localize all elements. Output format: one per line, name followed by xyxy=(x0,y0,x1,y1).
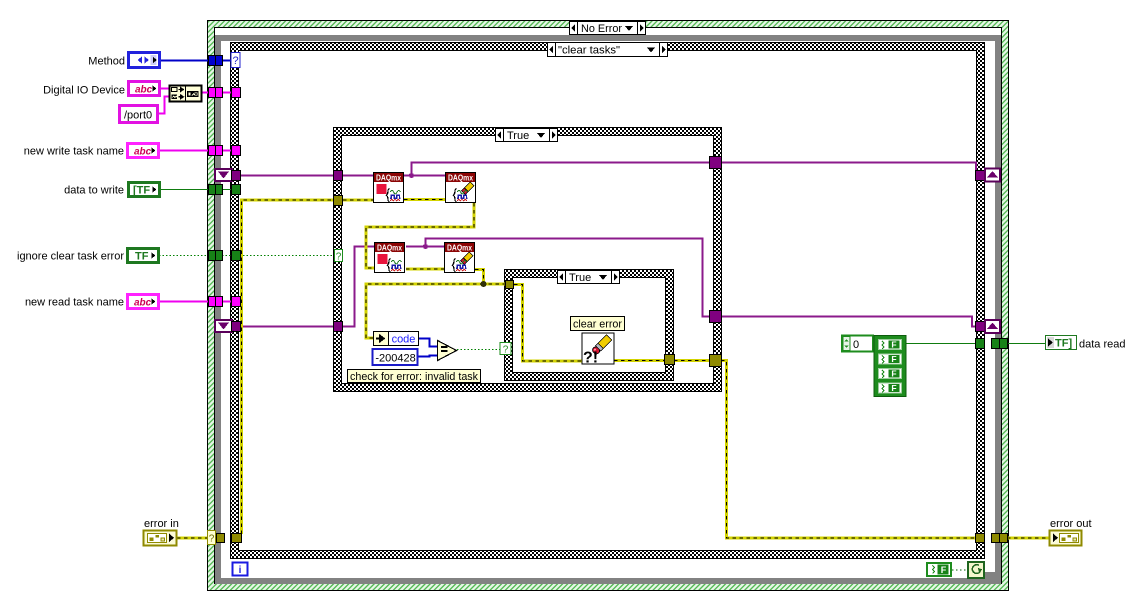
tunnel pair ignore clear task error (green) xyxy=(209,251,223,261)
svg-text:ignore clear task error: ignore clear task error xyxy=(17,251,124,263)
svg-text:Digital IO Device: Digital IO Device xyxy=(43,85,125,97)
free label: check for error invalid task xyxy=(348,370,481,384)
error wire: down right side and along bottom to exit tunnels xyxy=(721,361,976,539)
svg-text:F: F xyxy=(891,354,896,364)
concatenate node xyxy=(170,85,202,102)
tunnel ignore clear task error on clear tasks border (green) xyxy=(232,251,241,261)
tunnel error out on clear tasks border (olive) xyxy=(976,534,985,543)
error wire: inside inner True case down to clear error vi xyxy=(514,285,582,362)
wire new write task name string xyxy=(159,150,240,152)
case label "clear tasks" xyxy=(548,43,668,57)
error wire: tunnels to error out indicator xyxy=(1007,537,1049,540)
case selector terminal ? of clear tasks case (blue) xyxy=(231,53,240,68)
error wire: tunnel to stop task 1 xyxy=(343,199,373,202)
error wire: between inner case tunnel and True case tunnel xyxy=(674,359,709,362)
case label True outer xyxy=(496,129,558,143)
svg-text:error out: error out xyxy=(1050,518,1092,530)
svg-text:i: i xyxy=(239,565,242,576)
tunnel pair new write task name (pink) xyxy=(209,146,223,156)
case structure "No Error" green striped border xyxy=(208,21,1009,591)
wire boolean array constant to data read tunnels (green zigzag) xyxy=(906,343,976,345)
tunnel write task on right case border (purple) xyxy=(976,171,985,181)
tunnel data read on right case border (green) xyxy=(976,339,985,349)
svg-text:abc: abc xyxy=(135,85,153,96)
tunnel new read task name on clear tasks border (pink) xyxy=(232,297,241,307)
case selector terminal ? of inner True case (green) xyxy=(500,343,511,356)
wire write task refnum: left shift register to DAQmx stop task 1 xyxy=(241,175,373,177)
error wire: error in terminal to ? selector and tunnels xyxy=(177,537,208,540)
svg-text:[TF: [TF xyxy=(133,185,150,197)
wire data to write boolean array (green zigzag) xyxy=(160,189,240,191)
svg-text:-200428: -200428 xyxy=(375,353,415,365)
junction dot read task wire xyxy=(423,244,428,249)
tunnel write task on True case left border (purple) xyxy=(334,171,343,181)
string constant /port0 xyxy=(120,106,158,123)
tunnel data to write on clear tasks border (green) xyxy=(232,185,241,195)
wire equals result to inner case selector (green dotted) xyxy=(457,349,500,351)
svg-text:F: F xyxy=(941,565,947,575)
tunnel pair device string (pink) xyxy=(209,88,223,98)
indicator terminal: error out (cluster) xyxy=(1050,531,1082,546)
svg-text:?: ? xyxy=(232,55,238,67)
tunnel device string on clear tasks border (pink) xyxy=(232,88,241,98)
control terminal: ignore clear task error (boolean) xyxy=(128,249,159,263)
tunnel pair data to write (green) xyxy=(209,185,223,195)
error wire: clear error vi out through tunnels xyxy=(614,359,665,362)
svg-text:True: True xyxy=(507,130,529,142)
tunnel error in on clear tasks border (olive) xyxy=(232,534,242,543)
tunnel new write task name on clear tasks border (pink) xyxy=(232,146,241,156)
tunnel error on True case left border (olive) xyxy=(334,196,343,206)
svg-text:F: F xyxy=(891,369,896,379)
wire /port0 constant to concat node xyxy=(157,97,169,114)
svg-text:clear error: clear error xyxy=(573,319,622,331)
case structure True outer woven border xyxy=(334,128,722,392)
junction dot error wire xyxy=(481,281,487,287)
control terminal: Method (enum) xyxy=(129,53,160,68)
unbundle by name node: code xyxy=(374,332,419,346)
svg-text:error in: error in xyxy=(144,518,179,530)
numeric constant -200428 xyxy=(373,349,418,365)
case label No Error xyxy=(570,22,646,36)
tunnel pair data read right (green) xyxy=(992,339,1008,349)
svg-text:code: code xyxy=(392,334,416,346)
svg-text:data to write: data to write xyxy=(64,185,124,197)
junction dot write task wire xyxy=(409,173,414,178)
svg-text:Method: Method xyxy=(88,56,125,68)
error wire: vertical riser inside clear tasks case xyxy=(242,200,335,534)
svg-text:F: F xyxy=(891,340,896,350)
Clear Errors VI icon xyxy=(582,333,614,367)
DAQmx Clear Task VI 2 xyxy=(445,243,475,273)
tunnel read task on right case border (purple) xyxy=(976,322,985,332)
control terminal: data to write (boolean array) xyxy=(129,183,160,197)
control terminal: new read task name (string) xyxy=(128,295,159,309)
indicator terminal: data read (boolean array) xyxy=(1046,336,1077,350)
svg-text:new write task name: new write task name xyxy=(24,146,124,158)
wire data read tunnel to indicator xyxy=(1008,343,1045,345)
wire code value to equals node (blue) xyxy=(419,339,437,347)
svg-text:abc: abc xyxy=(134,147,152,158)
wire read task refnum: left shift register 2 up to DAQmx stop task 2 xyxy=(241,247,374,327)
equal? comparison node xyxy=(438,341,457,361)
svg-text:?!: ?! xyxy=(583,350,598,367)
wire new read task name string xyxy=(159,301,240,303)
DAQmx Stop Task VI 1 xyxy=(374,173,404,203)
error case selector ? terminal on green border xyxy=(208,531,216,545)
tunnel pair new read task name (pink) xyxy=(209,297,223,307)
svg-text:"clear tasks": "clear tasks" xyxy=(558,45,620,57)
tunnel write task on clear tasks border (purple) xyxy=(232,171,241,181)
boolean array constant: index box xyxy=(842,336,873,352)
svg-text:abc: abc xyxy=(134,298,152,309)
wire F constant to loop condition terminal (green dotted) xyxy=(952,569,968,571)
svg-text:?: ? xyxy=(503,345,509,356)
left shift register read task (down arrow) xyxy=(215,320,232,332)
tunnel error on True case right border (olive) xyxy=(710,355,722,367)
svg-text:data read: data read xyxy=(1079,339,1125,351)
svg-text:0: 0 xyxy=(853,339,859,351)
control terminal: new write task name (string) xyxy=(128,144,159,158)
svg-text:TF]: TF] xyxy=(1055,338,1072,350)
tunnel read task on True case right border (purple) xyxy=(710,311,722,323)
wire -200428 constant to equals node (blue) xyxy=(418,356,437,357)
tunnel error on inner True case left border (olive) xyxy=(506,281,514,289)
wire read task refnum up over inner case and down to right shift register 2 xyxy=(426,239,979,327)
wire Digital IO Device string to concat node xyxy=(159,88,169,90)
wire device string from concat node to tunnels xyxy=(202,92,240,94)
error wire: clear task 2 out to junction and inner case tunnel xyxy=(475,270,506,285)
DAQmx Clear Task VI 1 xyxy=(446,173,476,203)
svg-text:?: ? xyxy=(209,534,215,545)
svg-text:?: ? xyxy=(336,252,342,263)
wire write task refnum up and right to right shift register xyxy=(412,163,979,176)
right shift register write task (up arrow) xyxy=(985,169,1000,182)
svg-text:F: F xyxy=(891,383,896,393)
free label: clear error xyxy=(571,317,625,331)
tunnel error in on loop border (olive) xyxy=(217,534,225,543)
error wire: clear task 1 down and around to stop task 2 xyxy=(366,203,474,268)
svg-text:new read task name: new read task name xyxy=(25,297,124,309)
iteration terminal i xyxy=(233,563,248,577)
control terminal: error in (cluster) xyxy=(144,531,177,546)
DAQmx Stop Task VI 2 xyxy=(375,243,405,273)
wire read task refnum between stop task 2 and clear task 2 xyxy=(406,246,444,248)
tunnel error on inner True case right border (olive) xyxy=(665,355,675,365)
svg-text:No Error: No Error xyxy=(581,23,622,35)
right shift register read task (up arrow) xyxy=(985,320,1000,333)
case selector terminal ? of True case (green) xyxy=(335,250,343,263)
svg-text:TF: TF xyxy=(135,251,149,263)
left shift register write task (down arrow) xyxy=(215,169,232,181)
error wire: between stop task 1 and clear task 1 xyxy=(404,198,445,201)
error wire: junction left and down to unbundle code node xyxy=(366,284,484,338)
case structure "clear tasks" woven border xyxy=(231,43,985,559)
while loop gray border xyxy=(215,35,1001,584)
wire Method enum (blue) xyxy=(160,60,231,62)
wire ignore clear task error boolean (green dotted) xyxy=(159,255,335,257)
tunnel read task on True case left border (purple) xyxy=(334,322,343,332)
svg-text:True: True xyxy=(569,272,591,284)
loop condition terminal xyxy=(968,562,984,578)
svg-text:/port0: /port0 xyxy=(124,110,152,122)
tunnel read task on clear tasks border (purple) xyxy=(232,322,241,332)
boolean constant F xyxy=(927,563,951,576)
control terminal: Digital IO Device (string) xyxy=(129,82,160,96)
case structure True inner woven border xyxy=(505,270,674,381)
error wire: between stop task 2 and clear task 2 xyxy=(406,268,444,271)
boolean array constant: elements xyxy=(874,336,906,397)
tunnel pair Method (blue) on case and loop borders xyxy=(209,56,223,66)
case label True inner xyxy=(558,271,620,285)
svg-text:check for error: invalid task: check for error: invalid task xyxy=(350,371,478,383)
tunnel write task on True case right border (purple) xyxy=(710,157,722,169)
wire write task refnum between stop task 1 and clear task 1 xyxy=(404,175,445,177)
tunnel pair error out (olive) xyxy=(992,534,1008,543)
